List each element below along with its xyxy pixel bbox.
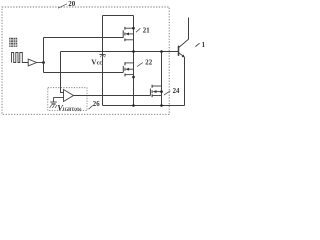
svg-text:1: 1 [202,42,206,49]
svg-text:22: 22 [145,60,152,67]
svg-text:IGBT(th): IGBT(th) [63,107,82,112]
svg-text:Vcc: Vcc [91,58,102,67]
svg-text:26: 26 [93,101,100,108]
svg-text:24: 24 [173,88,180,95]
svg-text:20: 20 [68,0,76,8]
svg-text:21: 21 [143,27,150,34]
